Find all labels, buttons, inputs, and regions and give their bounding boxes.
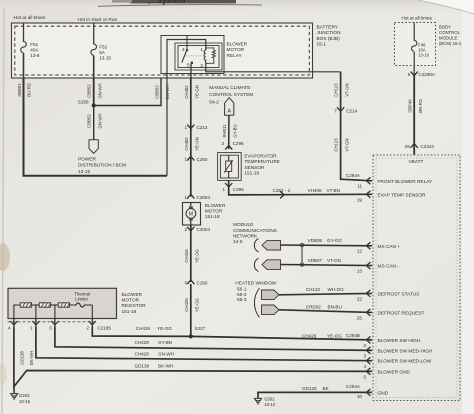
svg-text:CH429: CH429 xyxy=(135,340,150,345)
resistor element R2 xyxy=(39,303,50,307)
svg-text:CRD02: CRD02 xyxy=(306,304,322,309)
svg-text:CH123: CH123 xyxy=(334,83,339,97)
fuse F51 40A xyxy=(21,23,27,78)
svg-text:GND: GND xyxy=(378,390,389,396)
svg-text:G202: G202 xyxy=(264,396,275,401)
svg-text:40A: 40A xyxy=(30,48,39,53)
svg-text:GN-WH: GN-WH xyxy=(98,113,103,128)
ground G203 xyxy=(13,387,15,394)
svg-text:C260: C260 xyxy=(197,280,208,285)
label EVAPORATOR TEMPERATURE SENSOR 151-18 xyxy=(244,154,280,177)
svg-text:54-2: 54-2 xyxy=(209,100,219,106)
module pin arrow FRONT BLOWER RELAY pin 11 xyxy=(366,177,370,184)
svg-text:VDB07: VDB07 xyxy=(308,258,323,263)
svg-text:26: 26 xyxy=(405,144,411,149)
tap wires to connector xyxy=(35,305,37,319)
svg-text:C2004: C2004 xyxy=(197,195,211,200)
ground G202 xyxy=(254,398,261,403)
svg-text:GY-OG: GY-OG xyxy=(327,238,342,243)
svg-text:2: 2 xyxy=(86,325,89,330)
svg-text:CH428: CH428 xyxy=(135,351,150,356)
label BLOWER MOTOR RELAY xyxy=(227,42,248,59)
svg-text:1: 1 xyxy=(200,47,203,53)
relay coil xyxy=(204,50,206,62)
svg-text:WH-OG: WH-OG xyxy=(328,287,345,292)
connector C2185 dashed line xyxy=(8,321,96,323)
svg-text:MS CAN -: MS CAN - xyxy=(378,264,400,270)
blower motor relay inner housing box xyxy=(175,43,222,70)
wire CH429 GY-BN resistor pin3 to module BLOWER SW MED-HIGH xyxy=(55,327,372,350)
svg-text:F52: F52 xyxy=(99,45,107,50)
off-page arrow heated window 1 xyxy=(262,290,279,300)
svg-text:VT-OG: VT-OG xyxy=(327,258,342,263)
svg-text:M: M xyxy=(189,211,193,217)
svg-text:C296: C296 xyxy=(233,141,244,146)
svg-text:C2280A: C2280A xyxy=(418,72,436,77)
svg-text:FRONT BLOWER RELAY: FRONT BLOWER RELAY xyxy=(378,179,434,185)
wire CBB52 feed to relay coil xyxy=(167,40,206,176)
svg-text:DEFROST STATUS: DEFROST STATUS xyxy=(378,291,420,297)
svg-text:GD138: GD138 xyxy=(19,351,24,365)
label BODY CONTROL MODULE (BCM) faint xyxy=(439,25,462,47)
svg-text:S227: S227 xyxy=(195,326,206,331)
splice S227 xyxy=(189,334,193,338)
wire CH428 GN-WH resistor pin1 to module BLOWER SW MED-LOW xyxy=(36,327,372,361)
svg-text:GY-BN: GY-BN xyxy=(158,340,172,345)
module pin arrow DEFROST REQUEST pin 25 xyxy=(366,309,370,316)
svg-text:Hot at all times: Hot at all times xyxy=(402,16,433,21)
svg-text:13-8: 13-8 xyxy=(30,53,40,58)
svg-text:YE-OG: YE-OG xyxy=(327,333,342,338)
svg-text:1: 1 xyxy=(184,195,187,200)
svg-text:YE-GN: YE-GN xyxy=(195,137,200,151)
wire CH123 VT-GN from BJB to module xyxy=(341,72,372,181)
svg-text:BK-WH: BK-WH xyxy=(29,351,34,365)
svg-text:BLOWER: BLOWER xyxy=(227,42,248,48)
svg-text:5: 5 xyxy=(187,63,190,69)
off-page arrow MS CAN - xyxy=(254,258,258,271)
svg-text:RELAY: RELAY xyxy=(227,53,243,59)
svg-text:7: 7 xyxy=(334,108,337,113)
module pin arrow BLOWER SW HIGH pin 2 xyxy=(366,336,370,343)
svg-text:BN-RD: BN-RD xyxy=(418,99,423,113)
svg-text:19: 19 xyxy=(357,197,363,202)
label BATTERY JUNCTION BOX (BJB) 15-1 xyxy=(317,25,342,48)
resistor element R1 xyxy=(20,303,31,307)
connector C296 pin 1 xyxy=(225,183,232,187)
blower motor relay outer housing box xyxy=(161,36,224,74)
svg-text:Hot in Start or Run: Hot in Start or Run xyxy=(78,17,118,23)
wire RH011 GY-BU arrow A down to evap sensor xyxy=(228,115,230,149)
svg-text:VH406: VH406 xyxy=(308,188,322,193)
svg-text:BLOWER: BLOWER xyxy=(122,292,143,298)
page top edge header remnants xyxy=(98,0,262,6)
svg-text:S156: S156 xyxy=(78,100,89,105)
svg-text:CONTROL SYSTEM: CONTROL SYSTEM xyxy=(209,92,253,98)
svg-text:15-1: 15-1 xyxy=(317,41,327,47)
svg-text:CH122: CH122 xyxy=(306,287,321,292)
svg-text:CBB52: CBB52 xyxy=(154,85,159,99)
label Thermal Limiter xyxy=(74,291,90,301)
thermistor symbol xyxy=(228,155,230,178)
svg-text:VT-GN: VT-GN xyxy=(345,138,350,151)
svg-text:CH426: CH426 xyxy=(302,333,317,338)
wire S156 branch right and up to relay housing xyxy=(94,78,161,105)
BCM fuse box (dotted) xyxy=(395,23,436,66)
svg-text:56-3: 56-3 xyxy=(237,297,247,303)
svg-text:C213: C213 xyxy=(197,125,208,130)
svg-text:POWER: POWER xyxy=(78,156,97,162)
svg-text:YE-OG: YE-OG xyxy=(195,297,200,312)
wire xyxy=(32,304,40,306)
connector C213 pin 1 xyxy=(187,125,194,129)
svg-text:BLOWER SW HIGH: BLOWER SW HIGH xyxy=(378,338,421,344)
wire CRD02 BN-BU xyxy=(279,310,372,313)
svg-text:CH426: CH426 xyxy=(184,298,189,312)
relay switch blade xyxy=(182,51,187,63)
svg-text:HEATED WINDOW: HEATED WINDOW xyxy=(235,280,277,286)
svg-text:C294A: C294A xyxy=(346,173,361,178)
svg-text:GN-WH: GN-WH xyxy=(165,84,170,99)
off-page arrow A (to manual climate control) xyxy=(225,98,234,116)
svg-text:56-1: 56-1 xyxy=(237,287,247,293)
svg-text:SBP46: SBP46 xyxy=(407,99,412,113)
svg-text:VDB06: VDB06 xyxy=(308,238,323,243)
svg-text:5: 5 xyxy=(408,72,411,77)
svg-text:22: 22 xyxy=(357,296,363,301)
wire CH426 YE-OG resistor pin2 to module BLOWER SW HIGH xyxy=(92,327,372,340)
svg-text:TEMPERATURE: TEMPERATURE xyxy=(244,159,280,165)
svg-text:10-12: 10-12 xyxy=(264,402,276,407)
svg-text:CBB52: CBB52 xyxy=(87,84,92,98)
svg-text:MOTOR: MOTOR xyxy=(227,47,245,53)
module pin arrow GND pin 10 xyxy=(366,389,370,396)
fuse F46 10A xyxy=(412,23,417,66)
svg-text:3: 3 xyxy=(49,325,52,330)
label MANUAL CLIMATE CONTROL SYSTEM 54-2 xyxy=(209,85,253,106)
wire VDB06 GY-OG xyxy=(281,244,373,247)
svg-text:COMMUNICATIONS: COMMUNICATIONS xyxy=(233,228,277,234)
svg-text:CH426: CH426 xyxy=(184,249,189,263)
svg-text:MODULE: MODULE xyxy=(439,36,458,41)
connector C2185 pin 3 xyxy=(54,319,56,328)
module pin arrow BLOWER SW MED-HIGH pin 3 xyxy=(366,347,370,354)
connector C260 pin 1 xyxy=(187,156,194,160)
blower motor resistor box xyxy=(8,288,117,318)
svg-text:BOX (BJB): BOX (BJB) xyxy=(317,36,341,42)
svg-text:MODULE: MODULE xyxy=(233,222,253,228)
svg-text:2: 2 xyxy=(184,227,187,232)
svg-text:VT-GN: VT-GN xyxy=(345,83,350,96)
svg-text:RH011: RH011 xyxy=(222,124,227,138)
svg-text:VT-BN: VT-BN xyxy=(327,188,341,193)
svg-text:GN-WH: GN-WH xyxy=(98,83,103,98)
svg-text:BU-RD: BU-RD xyxy=(27,83,32,97)
wire relay pin 5 down xyxy=(190,64,192,78)
wire CH426 YE-OG down to splice S227 xyxy=(190,284,192,336)
splice S156 xyxy=(92,103,96,107)
svg-text:SENSOR: SENSOR xyxy=(244,165,265,171)
off-page arrow MS CAN + xyxy=(254,239,258,252)
svg-text:4: 4 xyxy=(8,325,11,330)
connector C2004 pin 1 xyxy=(187,194,194,198)
svg-text:DEFROST REQUEST: DEFROST REQUEST xyxy=(378,310,425,316)
blower motor M symbol xyxy=(190,203,192,207)
connector C2185 pin 2 xyxy=(91,319,93,328)
svg-text:VBATT: VBATT xyxy=(409,159,424,165)
wire SBP46 BN-RD down to C2344 xyxy=(413,76,415,155)
label HEATED WINDOW 56-1 56-2 56-3 xyxy=(235,280,277,303)
svg-text:MOTOR: MOTOR xyxy=(205,209,223,215)
svg-text:1: 1 xyxy=(184,125,187,130)
wire CH402 YE-GN relay pin5 down to blower motor xyxy=(190,78,192,197)
module pin arrow BLOWER GND pin 5 xyxy=(366,368,370,375)
svg-text:5A: 5A xyxy=(99,50,106,55)
label BLOWER MOTOR 151-18 xyxy=(205,203,226,220)
svg-text:BATTERY: BATTERY xyxy=(317,25,339,31)
page corner curl top-right xyxy=(418,0,474,14)
svg-text:EVAP TEMP SENSOR: EVAP TEMP SENSOR xyxy=(378,192,427,198)
svg-text:56-2: 56-2 xyxy=(237,292,247,298)
svg-text:YE-OG: YE-OG xyxy=(157,326,172,331)
svg-text:(BCM) 15-2: (BCM) 15-2 xyxy=(439,41,462,46)
connector C2344 pin 26 xyxy=(411,144,418,148)
connector C2004 pin 2 xyxy=(190,225,192,282)
svg-text:12: 12 xyxy=(357,249,363,254)
svg-text:BLOWER SW MED-LOW: BLOWER SW MED-LOW xyxy=(378,359,432,365)
svg-text:5: 5 xyxy=(363,375,366,380)
blower motor component box xyxy=(183,203,201,226)
resistor chain wire xyxy=(14,305,20,319)
svg-text:2: 2 xyxy=(363,343,366,348)
evaporator temperature sensor box xyxy=(218,153,242,181)
wire S156 down to power distribution xyxy=(93,106,95,140)
svg-text:GD133: GD133 xyxy=(302,386,317,391)
relay actuate dotted link xyxy=(186,55,204,57)
svg-text:C263 - 2: C263 - 2 xyxy=(273,188,291,193)
svg-text:BLOWER: BLOWER xyxy=(205,203,226,209)
wire GD133 BK ground to module GND xyxy=(258,392,372,398)
relay pin 3 wire stub xyxy=(186,36,188,50)
relay switch contact xyxy=(186,49,188,51)
svg-text:14-6: 14-6 xyxy=(233,239,243,245)
svg-text:YE-OG: YE-OG xyxy=(195,248,200,263)
relay pin labels 3 1 5 2 xyxy=(182,47,204,69)
HVAC module dashed box xyxy=(373,155,460,401)
svg-text:SBB51: SBB51 xyxy=(17,83,22,97)
svg-text:BK: BK xyxy=(323,386,330,391)
svg-text:RESISTOR: RESISTOR xyxy=(122,303,147,309)
svg-text:151-18: 151-18 xyxy=(205,214,220,220)
svg-text:2: 2 xyxy=(222,141,225,146)
module pin arrow DEFROST STATUS pin 22 xyxy=(366,290,370,297)
connector C214 pin 7 xyxy=(337,107,344,111)
svg-text:BN-BU: BN-BU xyxy=(328,304,342,309)
connector C2280A pin 5 xyxy=(413,66,415,76)
relay K1 component box xyxy=(178,46,219,68)
connector C296 pin 2 xyxy=(225,145,232,149)
wire CH122 WH-OG xyxy=(279,293,372,294)
svg-text:13: 13 xyxy=(357,268,363,273)
off-page arrow to POWER DISTRIBUTION / BCM xyxy=(89,140,98,154)
svg-text:25: 25 xyxy=(357,315,363,320)
svg-text:CH426: CH426 xyxy=(136,326,151,331)
svg-text:BLOWER GND: BLOWER GND xyxy=(378,369,411,375)
svg-text:CONTROL: CONTROL xyxy=(439,30,461,35)
svg-text:3: 3 xyxy=(182,47,185,53)
svg-text:G203: G203 xyxy=(19,393,30,398)
svg-text:C296: C296 xyxy=(233,187,244,192)
svg-text:BK-WH: BK-WH xyxy=(158,363,173,368)
svg-text:1: 1 xyxy=(184,157,187,162)
svg-text:C260: C260 xyxy=(197,157,208,162)
page left edge xyxy=(2,8,4,414)
svg-text:13-16: 13-16 xyxy=(418,52,429,57)
twisted pair junction xyxy=(300,243,303,246)
relay pin 5 contact xyxy=(191,62,193,64)
svg-text:151-18: 151-18 xyxy=(244,170,259,176)
fuse F52 5A xyxy=(91,23,97,78)
brace for heated window arrows xyxy=(254,288,259,318)
svg-text:A: A xyxy=(227,108,231,114)
battery junction box BJB outline xyxy=(12,23,313,78)
svg-text:DISTRIBUTION / BCM: DISTRIBUTION / BCM xyxy=(78,163,126,169)
svg-text:F51: F51 xyxy=(30,42,38,47)
svg-text:BODY: BODY xyxy=(439,25,451,30)
svg-text:MS CAN +: MS CAN + xyxy=(378,244,401,250)
svg-text:BLOWER SW MED-HIGH: BLOWER SW MED-HIGH xyxy=(378,348,433,354)
wire relay pin 2 to BJB right exit xyxy=(206,62,341,72)
svg-text:2: 2 xyxy=(200,63,203,69)
svg-text:JUNCTION: JUNCTION xyxy=(317,30,342,36)
module pin arrow MS CAN + pin 12 xyxy=(366,242,370,249)
svg-text:C294A: C294A xyxy=(346,384,361,389)
svg-text:3: 3 xyxy=(363,354,366,359)
svg-text:Hot at all times: Hot at all times xyxy=(14,15,46,21)
svg-text:Limiter: Limiter xyxy=(75,297,88,302)
module pin arrow MS CAN - pin 13 xyxy=(366,262,370,269)
wire GD138 BK-WH resistor pin4 to module BLOWER GND xyxy=(14,327,372,387)
svg-text:13-15: 13-15 xyxy=(78,169,91,175)
wire CBB52 GN-WH from F52 to splice S156 xyxy=(93,78,95,106)
svg-text:CH402: CH402 xyxy=(184,85,189,99)
svg-text:CH123: CH123 xyxy=(334,138,339,152)
svg-text:10-15: 10-15 xyxy=(19,399,31,404)
label BLOWER MOTOR RESISTOR 151-18 xyxy=(122,292,147,315)
svg-text:GN-WH: GN-WH xyxy=(158,351,174,356)
svg-text:1: 1 xyxy=(222,187,225,192)
svg-text:C2004: C2004 xyxy=(197,227,211,232)
label MODULE COMMUNICATIONS NETWORK 14-6 xyxy=(233,222,277,245)
svg-text:YE-GN: YE-GN xyxy=(195,85,200,99)
wire SBB51 BU-RD from F51 down, right, and up to relay housing xyxy=(24,78,168,176)
svg-text:C2344: C2344 xyxy=(420,144,434,149)
svg-text:4: 4 xyxy=(363,364,366,369)
smudge on left edge xyxy=(0,243,10,271)
svg-text:C294B: C294B xyxy=(346,333,360,338)
wire VDB07 VT-OG xyxy=(281,265,373,266)
svg-text:2: 2 xyxy=(184,280,187,285)
svg-text:CBB52: CBB52 xyxy=(87,114,92,128)
svg-text:NETWORK: NETWORK xyxy=(233,233,258,239)
connector C2185 pin 1 xyxy=(35,319,37,328)
relay coil parallel resistor xyxy=(206,48,216,63)
svg-text:C2185: C2185 xyxy=(97,325,111,330)
wire VH406 VT-BN to module xyxy=(229,180,372,195)
svg-text:MANUAL CLIMATE: MANUAL CLIMATE xyxy=(209,85,250,91)
svg-text:13-15: 13-15 xyxy=(99,56,111,61)
connector C2185 pin 4 xyxy=(13,319,15,328)
resistor element R3 xyxy=(58,303,69,307)
svg-text:151-18: 151-18 xyxy=(122,309,137,315)
svg-text:MOTOR: MOTOR xyxy=(122,298,140,304)
svg-text:GY-BU: GY-BU xyxy=(233,124,238,137)
svg-text:CH402: CH402 xyxy=(184,137,189,151)
module pin arrow BLOWER SW MED-LOW pin 4 xyxy=(366,357,370,364)
connector C260 pin 2 xyxy=(187,280,194,284)
svg-text:C214: C214 xyxy=(346,108,357,113)
off-page arrow heated window 2 xyxy=(262,305,279,315)
svg-text:11: 11 xyxy=(357,184,362,189)
inline connector C263 pin 2 xyxy=(280,191,284,198)
svg-text:10: 10 xyxy=(357,394,363,399)
svg-text:GD138: GD138 xyxy=(135,363,150,368)
svg-text:EVAPORATOR: EVAPORATOR xyxy=(244,154,277,160)
wire xyxy=(51,304,59,306)
thermal limiter element xyxy=(70,303,93,307)
svg-text:1: 1 xyxy=(30,325,33,330)
module pin arrow EVAP TEMP SENSOR pin 19 xyxy=(366,191,370,198)
